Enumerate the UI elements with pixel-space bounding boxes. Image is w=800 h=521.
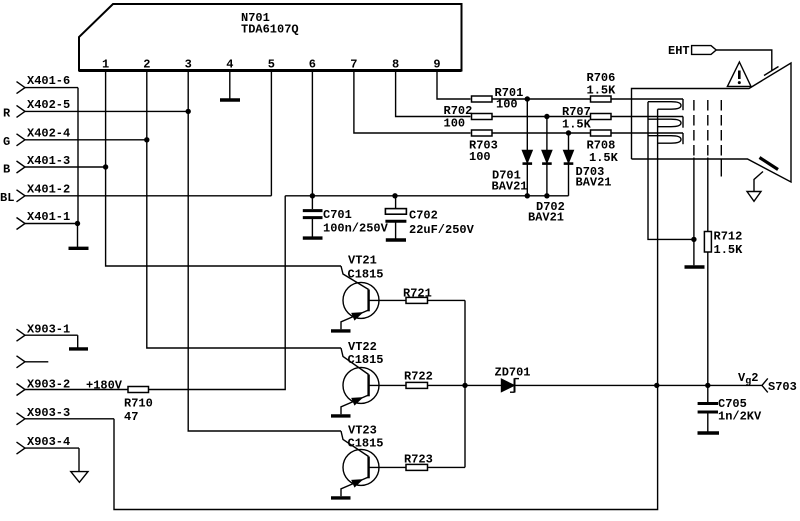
label ZD701 [495, 366, 531, 380]
label R707 [562, 105, 591, 119]
wire pin2 column [147, 72, 341, 349]
label B [3, 163, 10, 177]
ground C705 [698, 431, 720, 434]
wire EHT to anode [716, 50, 772, 71]
label R721 [403, 287, 432, 301]
label X903-3 [27, 406, 70, 420]
connector X903-2 [17, 384, 129, 396]
ground VT22 emitter [331, 414, 351, 417]
value label TDA6107Q [241, 23, 299, 37]
ground X401-1 [69, 247, 89, 250]
label D701 [492, 169, 521, 183]
wire aquadag to ground [754, 172, 763, 192]
label G [3, 135, 10, 149]
node G row to pin2 [144, 137, 149, 142]
node common bus ZD701 [462, 383, 467, 388]
svg-text:R721: R721 [403, 287, 432, 301]
label VT22 [348, 340, 377, 354]
pin 8 number [392, 58, 399, 72]
label R710 [124, 397, 153, 411]
connector X401-2 [17, 190, 272, 202]
label VT23 [348, 424, 377, 438]
label X903-2 [27, 378, 70, 392]
label VT21 [348, 254, 377, 268]
wire R721 R722 R723 common bus [464, 300, 466, 467]
resistor R721 [406, 297, 465, 303]
svg-text:7: 7 [350, 58, 357, 72]
value label 47 [124, 410, 138, 424]
svg-text:2: 2 [143, 58, 150, 72]
transistor Q3 VT23 C1815 [341, 431, 406, 496]
resistor R702 [472, 114, 547, 120]
svg-text:6: 6 [309, 58, 316, 72]
capacitor C705 [698, 404, 718, 432]
svg-text:1n/2KV: 1n/2KV [718, 410, 762, 424]
grid G2 dashed [707, 100, 709, 158]
node heater G1 junction [691, 237, 696, 242]
wire Vg2 node to S703 [657, 384, 762, 386]
svg-text:R710: R710 [124, 397, 153, 411]
svg-text:1.5K: 1.5K [562, 118, 592, 132]
svg-text:X401-3: X401-3 [27, 154, 70, 168]
connector X903-1 [17, 329, 78, 347]
svg-text:C701: C701 [323, 208, 352, 222]
wire pin8 to R702 [396, 72, 471, 117]
resistor R708 [569, 130, 684, 136]
resistor R712 [704, 232, 711, 403]
ground C702 [386, 238, 406, 241]
svg-text:G: G [3, 135, 10, 149]
connector X402-4 [17, 134, 147, 146]
value label 1.5K (R708) [589, 151, 619, 165]
svg-text:4: 4 [226, 58, 233, 72]
svg-text:B: B [3, 163, 10, 177]
wire pin9 to R701 [437, 72, 471, 100]
value label C1815 (VT23) [348, 437, 384, 451]
svg-text:C702: C702 [409, 209, 438, 223]
ground X903-1 [69, 347, 88, 350]
svg-text:100: 100 [444, 117, 466, 131]
value label C1815 (VT21) [348, 268, 384, 282]
node bus D702 [544, 193, 549, 198]
heater filament 3 [648, 136, 681, 144]
node R701 output [525, 96, 530, 101]
svg-text:47: 47 [124, 410, 138, 424]
ground X903-4 triangle [71, 472, 88, 483]
resistor R710 [128, 387, 149, 393]
label BL [0, 191, 14, 205]
diode D703 BAV21 [564, 133, 574, 196]
value label 100 (R702) [444, 117, 466, 131]
label N701 [241, 11, 270, 25]
wire heater left lead [648, 102, 694, 240]
connector unlabeled stub [17, 356, 49, 368]
wire +180V supply bus [285, 195, 568, 197]
ground pin4 [220, 98, 240, 101]
grid G3 dashed [720, 100, 722, 177]
diode ZD701 zener [502, 378, 520, 392]
label C701 [323, 208, 352, 222]
label R722 [404, 370, 433, 384]
label R703 [469, 139, 498, 153]
node bus C701 [310, 193, 315, 198]
wire X401-6 down left bus [77, 88, 79, 224]
wire left bus to ground [77, 224, 79, 248]
connector X903-4 [17, 442, 80, 472]
wire pin5 column to BL [270, 72, 272, 196]
ground G1 [685, 265, 705, 268]
svg-text:1.5K: 1.5K [714, 243, 744, 257]
svg-text:BAV21: BAV21 [528, 211, 564, 225]
label C705 [718, 397, 747, 411]
wire pin3 column [188, 72, 341, 432]
label X903-4 [27, 435, 70, 449]
svg-text:X401-2: X401-2 [27, 183, 70, 197]
transistor Q1 VT21 C1815 [341, 266, 406, 329]
pin 9 number [433, 58, 440, 72]
ground CRT chassis triangle [747, 192, 761, 202]
connector EHT tag [692, 46, 717, 55]
label R708 [587, 139, 616, 153]
svg-text:VT21: VT21 [348, 254, 377, 268]
svg-text:X402-4: X402-4 [27, 127, 70, 141]
cathode hook row2 [682, 117, 684, 128]
wire pin7 to R703 [354, 72, 471, 134]
heater filament 2 [648, 119, 681, 127]
wire common bus to ZD701 [465, 384, 502, 386]
svg-text:1.5K: 1.5K [587, 84, 617, 98]
ground VT23 emitter [331, 496, 351, 499]
heater filament 1 [648, 102, 681, 110]
svg-text:X401-6: X401-6 [27, 74, 70, 88]
resistor R722 [406, 382, 465, 388]
label R702 [444, 104, 473, 118]
label X402-5 [27, 98, 70, 112]
node bus D701 [525, 193, 530, 198]
connector X401-3 [17, 161, 106, 173]
ground VT21 emitter [331, 329, 351, 332]
value label BAV21 (D702) [528, 211, 564, 225]
label X401-2 [27, 183, 70, 197]
wire pin6 column to supply bus [311, 72, 313, 196]
label X401-3 [27, 154, 70, 168]
svg-text:1: 1 [102, 58, 109, 72]
svg-text:X903-2: X903-2 [27, 378, 70, 392]
node R row to pin3 [186, 109, 191, 114]
grid G1 dashed [693, 100, 695, 158]
transistor Q2 VT22 C1815 [341, 348, 406, 414]
label S703 [768, 380, 797, 394]
label R706 [587, 71, 616, 85]
value label 22uF/250V [409, 223, 475, 237]
value label 1.5K (R712) [714, 243, 744, 257]
label X402-4 [27, 127, 70, 141]
connector X401-6 [17, 82, 79, 94]
svg-text:100n/250V: 100n/250V [323, 222, 389, 236]
svg-text:5: 5 [268, 58, 275, 72]
svg-text:R722: R722 [404, 370, 433, 384]
svg-text:ZD701: ZD701 [495, 366, 531, 380]
svg-text:100: 100 [496, 98, 518, 112]
label R [3, 107, 11, 121]
value label C1815 (VT22) [348, 353, 384, 367]
svg-text:8: 8 [392, 58, 399, 72]
label D703 [576, 165, 605, 179]
resistor R707 [547, 114, 683, 120]
wire pin4 to ground [229, 72, 231, 99]
connector X903-3 [17, 413, 115, 425]
svg-text:100: 100 [469, 150, 491, 164]
aquadag contact tick [760, 158, 779, 170]
svg-text:22uF/250V: 22uF/250V [409, 223, 475, 237]
svg-text:C1815: C1815 [348, 353, 384, 367]
svg-text:R712: R712 [714, 230, 743, 244]
node bus C702 [392, 193, 397, 198]
svg-text:C1815: C1815 [348, 268, 384, 282]
value label 100 (R703) [469, 150, 491, 164]
diode D701 BAV21 [523, 99, 533, 196]
svg-text:VT23: VT23 [348, 424, 377, 438]
value label 1n/2KV [718, 410, 762, 424]
pin 3 number [185, 58, 192, 72]
resistor R703 [472, 130, 569, 136]
label R701 [495, 86, 524, 100]
svg-text:BAV21: BAV21 [576, 176, 612, 190]
pin 2 number [143, 58, 150, 72]
label R723 [404, 453, 433, 467]
node R702 output [544, 114, 549, 119]
svg-text:X903-1: X903-1 [27, 323, 70, 337]
value label 1.5K (R706) [587, 84, 617, 98]
connector X401-1 [17, 218, 78, 230]
ground C701 [303, 236, 323, 239]
wire G1 to ground [693, 158, 695, 266]
resistor R723 [406, 464, 465, 470]
svg-text:1.5K: 1.5K [589, 151, 619, 165]
label Vg2 [738, 371, 758, 388]
warning triangle [727, 62, 751, 86]
svg-text:BL: BL [0, 191, 14, 205]
label X401-1 [27, 210, 70, 224]
resistor R706 [527, 96, 683, 102]
connector X402-5 [17, 105, 189, 117]
node X401-1 junction [75, 221, 80, 226]
svg-text:X903-4: X903-4 [27, 435, 70, 449]
label +180V [86, 379, 123, 393]
wire R710 riser to supply bus [149, 196, 286, 390]
pin 7 number [350, 58, 357, 72]
svg-text:+180V: +180V [86, 379, 123, 393]
wire heater right lead to bottom rail [114, 109, 658, 509]
diode D702 BAV21 [542, 117, 552, 196]
svg-text:3: 3 [185, 58, 192, 72]
connector S703 [762, 378, 768, 392]
anode contact tick [764, 67, 779, 76]
svg-text:R723: R723 [404, 453, 433, 467]
node Vg2 heater lead junction [654, 383, 659, 388]
cathode hook row3 [682, 133, 684, 144]
label D702 [536, 200, 565, 214]
value label BAV21 (D701) [492, 180, 528, 194]
wire G2 to R712 [707, 158, 709, 234]
node Vg2 R712 junction [705, 383, 710, 388]
svg-text:C1815: C1815 [348, 437, 384, 451]
node R703 output [566, 130, 571, 135]
value label 1.5K (R707) [562, 118, 592, 132]
svg-text:S703: S703 [768, 380, 797, 394]
value label 100n/250V [323, 222, 389, 236]
label C702 [409, 209, 438, 223]
label EHT [668, 44, 690, 58]
capacitor C701 [303, 196, 323, 237]
value label BAV21 (D703) [576, 176, 612, 190]
label R712 [714, 230, 743, 244]
value label 100 (R701) [496, 98, 518, 112]
svg-text:9: 9 [433, 58, 440, 72]
svg-text:X401-1: X401-1 [27, 210, 70, 224]
capacitor C702 electrolytic [385, 196, 406, 239]
CRT picture tube outline [632, 63, 792, 182]
cathode hook row1 [682, 99, 684, 110]
svg-text:X402-5: X402-5 [27, 98, 70, 112]
svg-text:VT22: VT22 [348, 340, 377, 354]
svg-text:BAV21: BAV21 [492, 180, 528, 194]
node B row to pin1 [103, 164, 108, 169]
svg-text:TDA6107Q: TDA6107Q [241, 23, 299, 37]
label X903-1 [27, 323, 70, 337]
pin 4 number [226, 58, 233, 72]
wire ZD701 to Vg2 node [515, 384, 657, 386]
wire pin1 column [106, 72, 341, 267]
label X401-6 [27, 74, 70, 88]
svg-text:R: R [3, 107, 11, 121]
pin 6 number [309, 58, 316, 72]
svg-text:EHT: EHT [668, 44, 690, 58]
pin 1 number [102, 58, 109, 72]
op-amp U1: video amplifier IC N701 TDA6107Q body [79, 4, 462, 71]
svg-text:X903-3: X903-3 [27, 406, 70, 420]
pin 5 number [268, 58, 275, 72]
resistor R701 [472, 96, 528, 102]
